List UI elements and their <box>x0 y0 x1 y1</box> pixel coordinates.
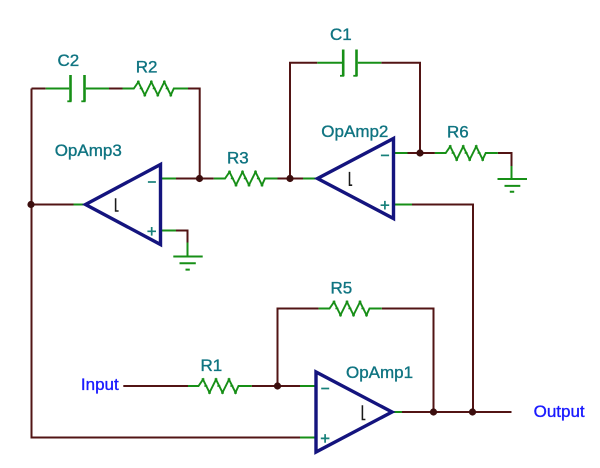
opamp OpAmp1 leads <box>300 386 402 438</box>
svg-text:R6: R6 <box>447 123 469 142</box>
svg-text:R3: R3 <box>227 149 249 168</box>
label R5 <box>331 278 353 297</box>
capacitor C2 <box>46 75 109 102</box>
wire C2-R2 feedback top <box>32 89 200 179</box>
wire output net <box>402 411 512 413</box>
op-amp OpAmp2 minus mark <box>381 154 389 156</box>
svg-text:OpAmp2: OpAmp2 <box>321 122 388 141</box>
op-amp OpAmp1 triangle <box>316 372 392 452</box>
opamp OpAmp3 output lead <box>74 204 86 206</box>
svg-text:Input: Input <box>81 375 119 394</box>
resistor R1 <box>188 378 252 394</box>
svg-text:Output: Output <box>534 402 585 421</box>
op-amp OpAmp3 inner glyph <box>116 198 119 211</box>
svg-text:R1: R1 <box>201 356 223 375</box>
junction node R5 on output <box>430 408 437 415</box>
junction node at OpAmp2 minus input <box>416 149 423 156</box>
label OpAmp1 <box>346 363 413 382</box>
label R3 <box>227 149 249 168</box>
label Input <box>81 375 119 394</box>
wire input net <box>123 385 300 387</box>
junction node at OpAmp2 output <box>286 175 293 182</box>
svg-text:C1: C1 <box>330 25 352 44</box>
wire R5 feedback loop <box>278 309 434 413</box>
junction node feedback on output <box>469 408 476 415</box>
wire OpAmp2 plus input down to output bus <box>412 205 473 413</box>
wire C1 left branch <box>290 63 317 179</box>
junction node at OpAmp3 output <box>27 201 34 208</box>
label OpAmp3 <box>55 141 122 160</box>
opamp OpAmp3 input leads <box>161 179 177 231</box>
svg-text:R5: R5 <box>331 278 353 297</box>
resistor R5 <box>319 301 382 317</box>
op-amp OpAmp2 plus mark <box>381 201 390 210</box>
label R1 <box>201 356 223 375</box>
ground below OpAmp3 <box>173 243 202 270</box>
wire C1 right branch to OpAmp2 minus node <box>381 63 435 153</box>
ground at R6 <box>498 166 528 192</box>
svg-text:OpAmp1: OpAmp1 <box>346 363 413 382</box>
op-amp OpAmp1 plus mark <box>321 434 330 443</box>
wire OpAmp3 plus input to ground <box>176 231 188 243</box>
wire R6 to ground <box>498 153 512 166</box>
resistor R2 <box>123 81 189 97</box>
svg-text:OpAmp3: OpAmp3 <box>55 141 122 160</box>
op-amp OpAmp2 inner glyph <box>350 172 353 185</box>
op-amp OpAmp3 minus mark <box>148 181 156 183</box>
opamp OpAmp2 leads <box>303 153 412 205</box>
label C1 <box>330 25 352 44</box>
resistor R3 <box>214 171 278 187</box>
wire R3 to OpAmp2 output node <box>278 178 304 180</box>
label C2 <box>58 51 80 70</box>
capacitor C1 <box>317 50 381 77</box>
svg-text:C2: C2 <box>58 51 80 70</box>
op-amp OpAmp1 inner glyph <box>362 405 365 419</box>
op-amp OpAmp3 triangle <box>86 165 161 245</box>
label OpAmp2 <box>321 122 388 141</box>
op-amp OpAmp1 minus mark <box>321 388 329 390</box>
label R2 <box>136 58 158 77</box>
label Output <box>534 402 585 421</box>
wire left vertical and bottom bus <box>32 89 301 438</box>
wire OpAmp3 output <box>32 204 74 206</box>
svg-text:R2: R2 <box>136 58 158 77</box>
junction node at OpAmp1 minus input <box>274 382 281 389</box>
op-amp OpAmp3 plus mark <box>147 227 156 236</box>
label R6 <box>447 123 469 142</box>
op-amp OpAmp2 triangle <box>318 139 394 219</box>
wire OpAmp3 minus input to R3 node <box>176 178 214 180</box>
resistor R6 <box>435 145 498 161</box>
junction node at OpAmp3 minus input <box>196 175 203 182</box>
